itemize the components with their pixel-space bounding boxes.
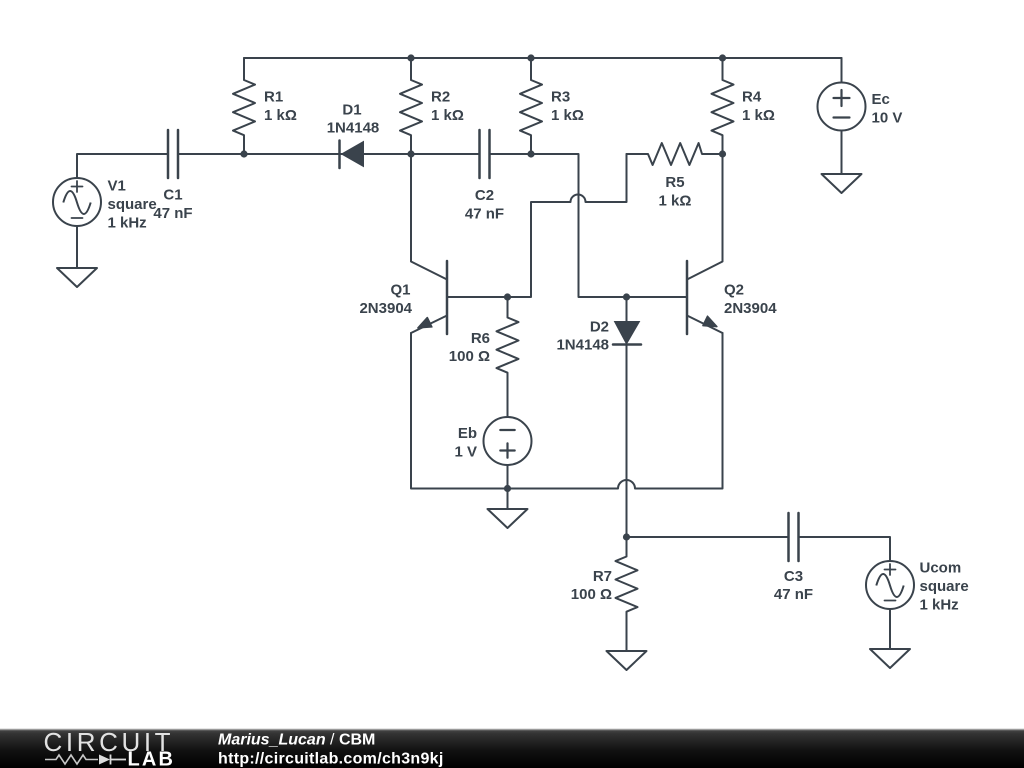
transistor Q2 emitter [687, 316, 723, 334]
wire C3 to Ucom [799, 537, 891, 561]
wire Ec to ground [841, 131, 843, 175]
source Ucom plus sign [885, 569, 896, 571]
svg-text:100 Ω: 100 Ω [449, 348, 490, 365]
diode D1 triangle [342, 142, 364, 167]
diode D2 triangle [615, 322, 640, 345]
ground for Ec [822, 174, 862, 193]
wire hop over vertical at (578.5,202) [571, 195, 586, 203]
node dot R4 top [719, 54, 726, 61]
source Eb minus sign [500, 429, 514, 431]
transistor Q1 emitter [411, 316, 447, 334]
svg-text:C1: C1 [163, 187, 182, 204]
svg-text:R4: R4 [742, 89, 762, 106]
svg-text:square: square [108, 196, 157, 213]
svg-text:1 kΩ: 1 kΩ [742, 107, 775, 124]
wire R3 node right then down to Q2 base corner [531, 154, 687, 297]
CircuitLab logo resistor-diode doodle [45, 755, 98, 764]
ground for R7 [607, 651, 647, 670]
source Eb plus sign [500, 449, 514, 451]
source Ec plus sign [834, 97, 850, 99]
transistor Q2 base bar [686, 261, 689, 334]
wire bottom emitter bus right part [635, 333, 723, 489]
resistor R6 [497, 297, 519, 417]
svg-text:Marius_Lucan / CBM: Marius_Lucan / CBM [218, 732, 375, 749]
svg-text:D2: D2 [590, 319, 609, 336]
capacitor C1 right plate [177, 130, 180, 178]
svg-text:D1: D1 [342, 102, 361, 119]
svg-text:C2: C2 [475, 187, 494, 204]
source Ucom sine symbol [876, 574, 903, 597]
svg-text:1 kHz: 1 kHz [920, 597, 959, 614]
svg-text:2N3904: 2N3904 [724, 300, 777, 317]
node dot R1 bottom [240, 150, 247, 157]
svg-text:1N4148: 1N4148 [327, 120, 380, 137]
source Ucom circle [866, 561, 914, 609]
wire bottom emitter bus left part [411, 333, 618, 489]
svg-text:R6: R6 [471, 330, 490, 347]
source V1 sine symbol [63, 191, 90, 214]
svg-text:R2: R2 [431, 89, 450, 106]
transistor Q2 emitter arrow [703, 316, 717, 326]
source Ec circle [818, 83, 866, 131]
wire Eb bottom to bus [507, 465, 509, 489]
capacitor C1 left plate [167, 130, 170, 178]
source V1 plus sign [72, 186, 83, 188]
svg-text:47 nF: 47 nF [153, 205, 192, 222]
wire top supply rail [244, 57, 842, 59]
svg-text:R5: R5 [665, 174, 684, 191]
transistor Q2 collector [687, 154, 723, 280]
svg-text:http://circuitlab.com/ch3n9kj: http://circuitlab.com/ch3n9kj [218, 751, 444, 768]
source V1 circle [53, 178, 101, 226]
svg-text:Q2: Q2 [724, 282, 744, 299]
capacitor C3 right plate [797, 513, 800, 561]
node dot Eb bottom [504, 485, 511, 492]
wire C2 left segment [411, 153, 479, 155]
svg-text:C3: C3 [784, 568, 803, 585]
svg-text:R1: R1 [264, 89, 283, 106]
transistor Q1 base bar [446, 261, 449, 334]
diode D1 cathode bar [338, 141, 341, 169]
node dot R2 top [407, 54, 414, 61]
svg-text:1 kΩ: 1 kΩ [431, 107, 464, 124]
ground for Ucom [870, 649, 910, 668]
wire V1 to C1 segment [77, 154, 168, 178]
wire V1 to ground [76, 226, 78, 268]
node dot R7 top [623, 533, 630, 540]
resistor R7 [616, 537, 638, 651]
svg-text:Q1: Q1 [390, 282, 410, 299]
svg-text:47 nF: 47 nF [774, 586, 813, 603]
svg-text:1 kHz: 1 kHz [108, 215, 147, 232]
resistor R3 [520, 58, 542, 154]
resistor R4 [712, 58, 734, 154]
source Ucom minus sign [885, 600, 896, 602]
svg-text:Ucom: Ucom [920, 560, 962, 577]
svg-text:square: square [920, 578, 969, 595]
diode D2 cathode bar [613, 343, 641, 346]
svg-text:LAB: LAB [128, 749, 176, 768]
footer bar background [0, 729, 1024, 768]
resistor R2 [400, 58, 422, 154]
transistor Q1 collector [411, 154, 447, 280]
svg-text:10 V: 10 V [872, 110, 903, 127]
svg-text:1 V: 1 V [454, 444, 477, 461]
node dot R4 bottom [719, 150, 726, 157]
transistor Q1 emitter arrow [418, 318, 432, 328]
wire C2 to R3 node [490, 153, 531, 155]
wire C1 to R1 node [179, 153, 245, 155]
svg-text:V1: V1 [108, 178, 126, 195]
node dot D2 top [623, 293, 630, 300]
node dot R6 top [504, 293, 511, 300]
svg-text:2N3904: 2N3904 [359, 300, 412, 317]
svg-text:Ec: Ec [872, 91, 890, 108]
ground for Eb [488, 509, 528, 528]
svg-text:47 nF: 47 nF [465, 206, 504, 223]
capacitor C3 left plate [787, 513, 790, 561]
svg-text:1 kΩ: 1 kΩ [264, 107, 297, 124]
wire hop over D2 column at (626.5,488.5) [618, 480, 635, 489]
wire rail to Ec [841, 58, 843, 83]
capacitor C2 right plate [488, 130, 491, 178]
svg-text:R3: R3 [551, 89, 570, 106]
wire Q1 base to cross net [447, 202, 571, 297]
wire R1 node to D1 to R2 node [244, 153, 411, 155]
resistor R5 [627, 143, 723, 165]
svg-text:Eb: Eb [458, 425, 477, 442]
svg-text:100 Ω: 100 Ω [571, 586, 612, 603]
node dot R3 top [527, 54, 534, 61]
wire R7 node to C3 [627, 536, 789, 538]
svg-text:R7: R7 [593, 568, 612, 585]
wire D2 anode lead [626, 297, 628, 322]
node dot R2 bottom [407, 150, 414, 157]
svg-text:1 kΩ: 1 kΩ [551, 107, 584, 124]
wire Ucom to ground [889, 609, 891, 649]
wire cross net to R5 left lead [586, 154, 627, 202]
ground for V1 [57, 268, 97, 287]
node dot R3 bottom [527, 150, 534, 157]
resistor R1 [233, 58, 255, 154]
source Eb circle [484, 417, 532, 465]
wire D2 cathode down to R7 node [626, 345, 628, 538]
svg-text:1 kΩ: 1 kΩ [659, 193, 692, 210]
svg-text:1N4148: 1N4148 [556, 337, 609, 354]
wire Eb ground stem [507, 489, 509, 510]
source V1 minus sign [72, 217, 83, 219]
source Ec minus sign [834, 116, 850, 118]
capacitor C2 left plate [478, 130, 481, 178]
